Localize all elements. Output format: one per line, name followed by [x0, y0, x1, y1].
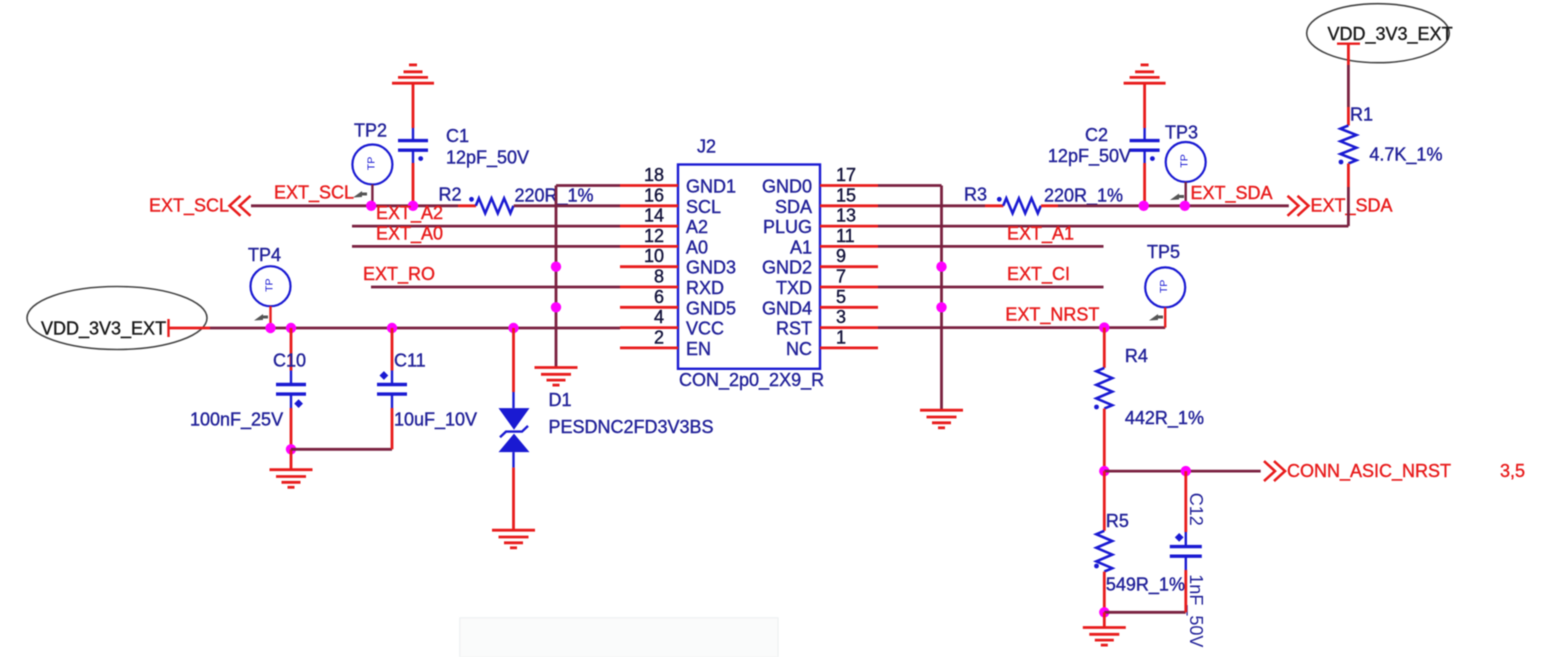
svg-text:GND1: GND1: [686, 177, 736, 197]
svg-text:R4: R4: [1125, 346, 1148, 366]
svg-text:EXT_SDA: EXT_SDA: [1311, 196, 1393, 217]
junction dot C1 on SCL wire: [408, 201, 418, 211]
wire C11 bottom lead: [391, 408, 394, 449]
wire VDD rail from oval: [169, 327, 211, 330]
svg-text:TP5: TP5: [1147, 242, 1180, 262]
svg-text:C10: C10: [273, 351, 306, 371]
svg-text:PLUG: PLUG: [763, 217, 812, 237]
svg-text:A0: A0: [686, 237, 708, 257]
svg-text:13: 13: [836, 206, 856, 226]
C2 pin1 marker dot: [1150, 156, 1155, 161]
svg-text:TP: TP: [264, 278, 276, 291]
ground under C10: [270, 470, 313, 488]
power port VDD_3V3_EXT (left oval): [27, 287, 207, 350]
svg-text:EXT_A0: EXT_A0: [376, 223, 443, 244]
wire J2 pin 17 to right ground rail: [878, 184, 942, 187]
wire R1 to J2 pin 13 PLUG: [878, 225, 1348, 228]
svg-text:12: 12: [644, 226, 664, 246]
faint title-block rectangle bottom: [460, 618, 778, 657]
wire VDD to D1: [512, 328, 515, 392]
svg-text:EXT_SDA: EXT_SDA: [1191, 183, 1273, 204]
wire C10 bottom to ground: [290, 449, 293, 469]
junction dot C10 bottom: [286, 444, 296, 454]
ground under right rail: [920, 410, 963, 428]
wire C1 bottom to SCL wire: [412, 163, 415, 206]
svg-text:6: 6: [654, 287, 664, 307]
svg-text:NC: NC: [786, 339, 812, 359]
R5 pin1 marker dot: [1094, 564, 1099, 569]
TP4 pin 1 marker: [254, 314, 268, 321]
svg-text:C2: C2: [1085, 125, 1108, 145]
svg-text:EXT_SCL: EXT_SCL: [149, 196, 229, 217]
C12 polarity diamond: [1175, 533, 1184, 542]
J2 pin 15 stub: [820, 204, 878, 207]
TP3 pin 1 marker: [1170, 194, 1184, 201]
svg-text:TP2: TP2: [354, 121, 387, 141]
wire right ground rail vertical: [940, 186, 943, 410]
wire EXT_SCL net from port to R2: [251, 204, 458, 207]
J2 pin 12 stub: [620, 245, 678, 248]
wire C10 bottom to C11 bottom: [291, 448, 392, 451]
resistor R2: [476, 198, 514, 213]
capacitor C11: [377, 371, 407, 409]
wire EXT_A2 to J2 pin 14: [352, 225, 620, 228]
resistor R4: [1096, 368, 1112, 409]
svg-text:SDA: SDA: [775, 197, 812, 217]
svg-text:10uF_10V: 10uF_10V: [394, 409, 477, 430]
port EXT_SDA (off-page, right): [1288, 196, 1393, 217]
junction dot ground rail pin 10 row: [551, 262, 561, 272]
svg-text:GND0: GND0: [762, 177, 812, 197]
svg-text:GND4: GND4: [762, 298, 812, 318]
junction dot R4/R5/C12 node: [1099, 466, 1109, 476]
svg-text:12pF_50V: 12pF_50V: [1048, 146, 1131, 167]
ground under D1: [492, 530, 535, 548]
wire C10 bottom: [290, 408, 293, 449]
svg-text:10: 10: [644, 246, 664, 266]
wire VDD to C11: [391, 328, 394, 371]
J2 pin 7 stub: [820, 286, 878, 289]
wire VDD oval down to R1: [1347, 44, 1350, 65]
wire EXT_CI from J2 pin 7: [878, 286, 1104, 289]
C1 pin1 marker dot: [418, 156, 423, 161]
test point TP4: [251, 266, 291, 306]
port CONN_ASIC_NRST (off-page): [1264, 461, 1451, 482]
wire R5 bottom to ground node: [1103, 572, 1106, 613]
svg-text:TP: TP: [1158, 280, 1170, 293]
svg-text:GND2: GND2: [762, 258, 812, 278]
svg-text:11: 11: [836, 226, 855, 246]
junction dot D1 branch: [508, 323, 518, 333]
svg-text:C12: C12: [1186, 493, 1206, 526]
ground under R5: [1083, 628, 1126, 646]
junction dot TP2 on SCL wire: [366, 201, 376, 211]
svg-text:4.7K_1%: 4.7K_1%: [1369, 145, 1442, 166]
svg-text:EXT_CI: EXT_CI: [1007, 264, 1070, 285]
svg-text:EXT_NRST: EXT_NRST: [1005, 305, 1099, 326]
svg-text:4: 4: [654, 307, 664, 327]
C10 pin1 diamond: [294, 399, 303, 408]
wire ground to C2 top: [1143, 84, 1146, 128]
svg-text:TP3: TP3: [1165, 123, 1198, 143]
wire R1 bottom: [1347, 164, 1350, 188]
wire C12 bottom lead: [1184, 570, 1187, 612]
R2 pin1 marker dot: [469, 197, 474, 202]
J2 pin 5 stub: [820, 306, 878, 309]
svg-text:CON_2p0_2X9_R: CON_2p0_2X9_R: [679, 370, 824, 391]
svg-text:TP: TP: [365, 157, 377, 170]
svg-text:442R_1%: 442R_1%: [1125, 408, 1204, 429]
svg-text:EXT_A2: EXT_A2: [376, 203, 443, 224]
svg-text:16: 16: [644, 185, 664, 205]
svg-text:3,5: 3,5: [1500, 461, 1525, 481]
R3 pin1 marker dot: [997, 197, 1002, 202]
junction dot TP4 on VDD rail: [265, 323, 275, 333]
test point TP5: [1145, 267, 1185, 307]
wire R4 bottom to node: [1103, 409, 1106, 472]
svg-text:EXT_RO: EXT_RO: [363, 264, 435, 285]
svg-text:J2: J2: [697, 137, 716, 157]
svg-text:C1: C1: [446, 126, 469, 146]
J2 pin 18 stub: [620, 184, 678, 187]
junction dot C12 branch: [1181, 466, 1191, 476]
J2 pin 16 stub: [620, 204, 678, 207]
junction dot C2 on SDA wire: [1139, 201, 1149, 211]
svg-text:8: 8: [654, 267, 664, 287]
svg-text:EN: EN: [686, 339, 711, 359]
capacitor C2: [1130, 128, 1160, 163]
junction dot right rail pin 9 row: [936, 262, 946, 272]
TP5 pin 1 marker: [1149, 314, 1163, 321]
TP2 pin 1 marker: [353, 191, 367, 198]
resistor R1: [1340, 126, 1356, 164]
svg-text:GND3: GND3: [686, 258, 736, 278]
wire SDA to R3: [878, 204, 985, 207]
svg-text:A2: A2: [686, 217, 708, 237]
junction dot R5/C12 bottom node: [1099, 607, 1109, 617]
test point TP2: [352, 145, 392, 185]
svg-text:RXD: RXD: [686, 278, 724, 298]
svg-text:SCL: SCL: [686, 197, 721, 217]
capacitor C1: [398, 128, 428, 163]
wire C12 top lead: [1184, 471, 1187, 532]
junction dot TP3 on SDA wire: [1180, 201, 1190, 211]
svg-text:C11: C11: [394, 351, 426, 371]
wire R2 to J2 pin 16: [514, 204, 620, 207]
svg-text:A1: A1: [790, 237, 812, 257]
junction dot R4 branch on EXT_NRST: [1099, 322, 1109, 332]
capacitor C12: [1170, 532, 1202, 570]
wire bottom node to C12 bottom: [1104, 611, 1186, 614]
J2 pin 13 stub: [820, 225, 878, 228]
svg-text:7: 7: [836, 267, 846, 287]
wire R3 to EXT_SDA port: [1041, 204, 1058, 207]
J2 pin 8 stub: [620, 286, 678, 289]
ground (flipped) above C1: [392, 65, 434, 83]
svg-text:GND5: GND5: [686, 298, 736, 318]
test point TP3: [1166, 142, 1206, 182]
wire EXT_A1 from J2 pin 11: [878, 245, 1104, 248]
wire bottom node to ground: [1103, 612, 1106, 626]
svg-text:TXD: TXD: [776, 278, 812, 298]
junction dot right rail pin 5 row: [936, 302, 946, 312]
power port VDD_3V3_EXT (top right oval): [1307, 4, 1453, 63]
ground under left rail: [535, 368, 578, 386]
svg-text:18: 18: [644, 165, 664, 185]
svg-text:1nF_50V: 1nF_50V: [1185, 574, 1206, 647]
resistor R5: [1096, 531, 1112, 572]
svg-text:EXT_A1: EXT_A1: [1007, 223, 1074, 244]
svg-text:17: 17: [836, 165, 856, 185]
R1 pin1 marker dot: [1339, 160, 1344, 165]
svg-text:9: 9: [836, 246, 846, 266]
svg-text:EXT_SCL: EXT_SCL: [274, 183, 354, 204]
wire left ground rail vertical: [555, 186, 558, 367]
svg-text:VDD_3V3_EXT: VDD_3V3_EXT: [41, 318, 166, 339]
svg-text:R2: R2: [439, 184, 462, 204]
capacitor C10: [276, 371, 306, 409]
TP2 pin 1 stub: [371, 185, 373, 206]
wire EXT_RO to J2 pin 8: [371, 286, 620, 289]
J2 pin 4 stub: [620, 326, 678, 329]
wire node to CONN_ASIC_NRST port: [1104, 470, 1260, 473]
J2 pin 9 stub: [820, 265, 878, 268]
svg-text:VDD_3V3_EXT: VDD_3V3_EXT: [1328, 24, 1453, 45]
wire VDD to C10: [290, 328, 293, 371]
svg-text:TP4: TP4: [248, 245, 281, 265]
port EXT_SCL (off-page, left): [149, 196, 251, 217]
junction dot C10 branch: [286, 323, 296, 333]
junction dot C11 branch: [387, 323, 397, 333]
J2 pin 14 stub: [620, 225, 678, 228]
svg-text:14: 14: [644, 206, 664, 226]
wire node down to R5: [1103, 471, 1106, 531]
svg-text:15: 15: [836, 185, 856, 205]
wire EXT_A0 to J2 pin 12: [352, 245, 620, 248]
svg-text:2: 2: [654, 327, 664, 347]
connector J2 body: [678, 165, 820, 369]
svg-text:12pF_50V: 12pF_50V: [446, 148, 529, 169]
svg-text:3: 3: [836, 307, 846, 327]
svg-text:TP: TP: [1179, 154, 1191, 167]
svg-text:1: 1: [836, 327, 846, 347]
svg-text:R3: R3: [964, 185, 987, 205]
wire EXT_NRST down to R4: [1103, 328, 1106, 368]
C11 polarity diamond: [380, 371, 389, 380]
J2 pin 11 stub: [820, 245, 878, 248]
svg-text:5: 5: [836, 287, 846, 307]
wire J2 pin 18 to left ground rail: [556, 184, 620, 187]
svg-text:100nF_25V: 100nF_25V: [190, 409, 283, 430]
wire SCL to R2: [458, 204, 476, 207]
junction dot ground rail pin 6 row: [551, 302, 561, 312]
svg-text:220R_1%: 220R_1%: [515, 185, 594, 206]
svg-text:VCC: VCC: [686, 319, 724, 339]
svg-text:D1: D1: [549, 390, 572, 410]
svg-text:CONN_ASIC_NRST: CONN_ASIC_NRST: [1287, 461, 1451, 482]
J2 pin 10 stub: [620, 265, 678, 268]
TP5 pin 1 stub: [1164, 307, 1166, 327]
svg-text:R5: R5: [1106, 511, 1129, 531]
wire C2 bottom to SDA wire: [1143, 163, 1146, 206]
svg-text:PESDNC2FD3V3BS: PESDNC2FD3V3BS: [549, 417, 714, 437]
wire EXT_NRST from J2 pin 3: [878, 326, 1165, 329]
TP3 pin 1 stub: [1184, 182, 1186, 206]
svg-text:220R_1%: 220R_1%: [1044, 185, 1123, 206]
resistor R3: [1003, 198, 1041, 213]
wire D1 to ground: [512, 468, 515, 529]
svg-text:549R_1%: 549R_1%: [1106, 575, 1185, 596]
R4 pin1 marker dot: [1094, 405, 1099, 410]
svg-text:R1: R1: [1350, 105, 1373, 125]
TP4 pin 1 stub: [269, 306, 271, 328]
TVS diode D1: [499, 392, 530, 468]
J2 pin 3 stub: [820, 326, 878, 329]
J2 pin 6 stub: [620, 306, 678, 309]
J2 pin 1 stub: [820, 346, 878, 349]
wire ground to C1 top: [412, 84, 415, 128]
svg-text:RST: RST: [776, 319, 812, 339]
J2 pin 17 stub: [820, 184, 878, 187]
ground (flipped) above C2: [1124, 65, 1166, 83]
wire VDD rail to J2 pin 4: [210, 327, 620, 330]
J2 pin 2 stub: [620, 346, 678, 349]
